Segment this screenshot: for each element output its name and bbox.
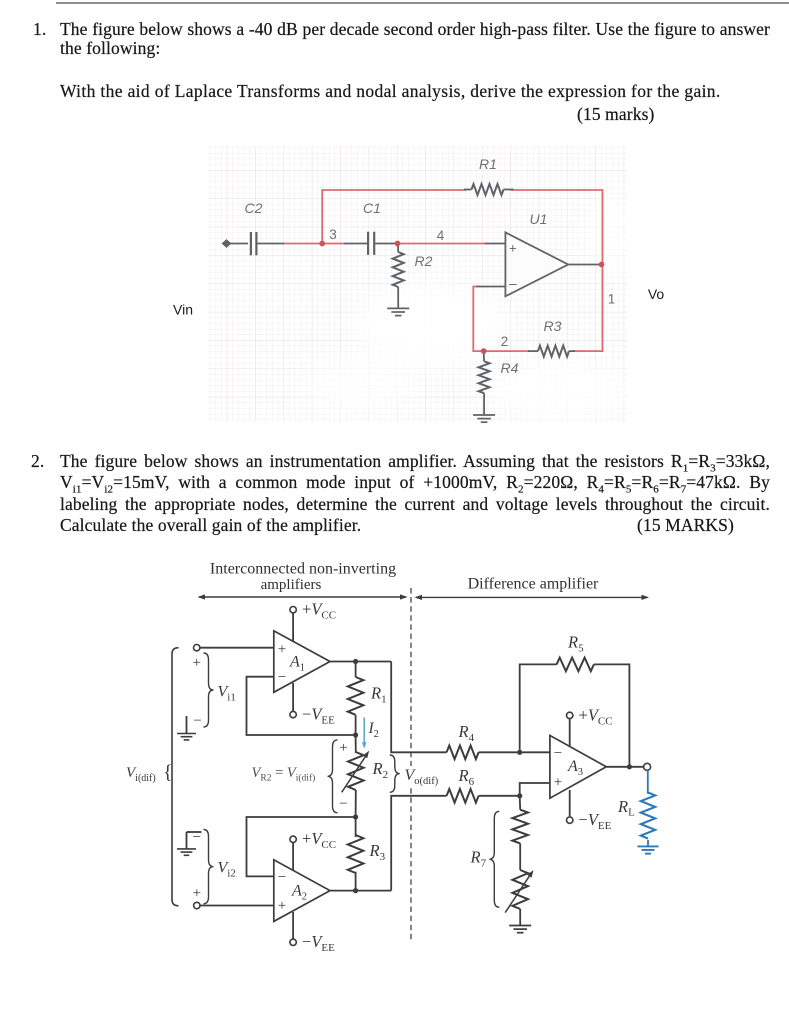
resistor R3 (355, 817, 357, 837)
node A1 output (353, 659, 358, 664)
A3 output wire (606, 766, 644, 768)
ground of RL (blue) (638, 845, 659, 847)
svg-text:R1: R1 (370, 684, 387, 706)
op-amp A1 supply stubs (292, 613, 294, 650)
op-amp A3 Vee terminal (567, 817, 573, 823)
svg-text:C1: C1 (363, 200, 381, 216)
svg-text:−: − (193, 830, 201, 846)
op-amp A3 triangle (550, 735, 606, 798)
A2 input terminal circle (194, 902, 200, 908)
A2 output wire and corner up to R6 rail (330, 890, 391, 892)
svg-text:+: + (278, 898, 286, 914)
node A2 output (353, 888, 358, 893)
svg-text:R2: R2 (415, 253, 433, 269)
svg-text:R7: R7 (470, 848, 487, 870)
lower source ground flag (187, 831, 202, 833)
svg-text:−: − (278, 870, 286, 886)
svg-text:{: { (163, 762, 173, 784)
svg-text:−: − (339, 796, 347, 812)
svg-text:+: + (554, 775, 562, 791)
capacitor C1 (344, 243, 368, 245)
svg-text:RL: RL (617, 797, 635, 819)
svg-text:VR2 = Vi(dif): VR2 = Vi(dif) (252, 765, 316, 783)
span arrow left section (199, 596, 406, 598)
svg-text:+: + (192, 655, 200, 671)
load resistor RL (blue) (647, 770, 649, 793)
ground of R7 (509, 925, 531, 927)
ground of R4 (473, 414, 495, 416)
resistor R2 (variable) (355, 735, 357, 753)
brace VR2 (328, 740, 338, 813)
op-amp A3 supply stubs (569, 719, 571, 755)
A1 output wire to corner (330, 661, 391, 663)
node 4 junction dot (395, 241, 401, 247)
svg-text:Vi1: Vi1 (218, 684, 236, 704)
ground of R2 (387, 307, 409, 309)
svg-text:R2: R2 (372, 759, 389, 781)
svg-text:R4: R4 (458, 722, 475, 744)
A1 input terminal circle (194, 645, 200, 651)
svg-text:4: 4 (437, 228, 445, 243)
svg-text:2: 2 (501, 334, 509, 349)
brace Vi1 (204, 653, 214, 727)
wire corner down to R4 rail (391, 662, 446, 753)
svg-text:C2: C2 (245, 200, 263, 216)
dashed divider line (410, 588, 412, 942)
A1 noninverting input wire (200, 647, 274, 649)
op-amp A2 Vcc terminal (290, 836, 296, 842)
resistor R6 (447, 789, 479, 803)
wire inverting input feedback to node 2 (473, 287, 529, 352)
resistor R4 (483, 351, 485, 361)
svg-text:+VCC: +VCC (579, 706, 613, 728)
brace Vi2 (204, 830, 214, 904)
resistor R5 feedback (520, 664, 557, 752)
svg-text:Vo: Vo (648, 286, 665, 302)
svg-text:R6: R6 (458, 766, 475, 788)
op-amp A1 triangle (274, 631, 330, 693)
op-amp A2 Vee terminal (290, 939, 296, 945)
svg-text:R5: R5 (567, 633, 584, 655)
resistor R1 (464, 189, 472, 191)
capacitor C2 (250, 232, 252, 255)
svg-text:+VCC: +VCC (302, 600, 336, 622)
A1 inverting feedback wire (247, 677, 356, 735)
resistor R3 (528, 350, 538, 352)
svg-text:+: + (193, 886, 201, 902)
R2 adjustment arrow (342, 755, 367, 792)
svg-text:−: − (554, 746, 562, 762)
brace Vo(dif) (390, 755, 400, 792)
svg-text:3: 3 (329, 227, 337, 242)
svg-text:R3: R3 (544, 318, 562, 334)
op-amp A2 triangle (274, 860, 330, 922)
svg-text:R3: R3 (369, 841, 386, 863)
resistor R2 (397, 244, 399, 253)
output terminal circle (644, 763, 651, 770)
svg-text:−: − (278, 670, 286, 686)
svg-text:U1: U1 (530, 211, 548, 227)
svg-text:Vin: Vin (173, 302, 193, 318)
node 2 junction dot (481, 348, 487, 354)
wire R1 to output rail down to R3 right lead (511, 190, 603, 351)
span arrow right section (416, 596, 648, 598)
svg-text:+VCC: +VCC (302, 829, 336, 851)
op-amp A2 supply stubs (292, 843, 294, 881)
schematic grid background (208, 146, 628, 422)
resistor R1 (355, 662, 357, 678)
svg-text:–: – (509, 275, 517, 291)
svg-text:Vi(dif): Vi(dif) (126, 765, 156, 784)
node A3 noninverting input (517, 793, 522, 798)
wire C2 to node 3 (283, 243, 344, 245)
op-amp A1 Vee terminal (290, 711, 296, 717)
A2 noninverting input wire (200, 905, 274, 907)
output node 1 dot (599, 262, 605, 268)
node A3 output (627, 764, 632, 769)
svg-text:−VEE: −VEE (579, 810, 612, 832)
node R2-R3 (353, 814, 358, 819)
brace R7 (489, 811, 499, 907)
wire node up to A3 noninverting input (520, 783, 550, 796)
node A3 inverting input (517, 750, 522, 755)
op-amp A3 Vcc terminal (567, 712, 573, 718)
label Vo(dif) (401, 766, 446, 786)
svg-text:−VEE: −VEE (302, 932, 335, 954)
svg-text:Difference amplifier: Difference amplifier (468, 576, 599, 593)
A2 inverting feedback wire (247, 817, 356, 876)
op-amp A1 Vcc terminal (290, 607, 296, 613)
R7 adjustment arrow (505, 875, 530, 913)
svg-text:R4: R4 (501, 360, 519, 376)
svg-text:+: + (339, 740, 347, 756)
upper source ground (186, 716, 188, 734)
wire node 3 riser and top rail to R1 (322, 190, 466, 244)
svg-text:Vi2: Vi2 (218, 860, 236, 880)
svg-text:R1: R1 (479, 156, 497, 172)
svg-text:1: 1 (608, 292, 616, 307)
svg-text:+: + (278, 642, 286, 658)
input bracket Vi(dif) (172, 648, 179, 906)
node R1-R2 (353, 732, 358, 737)
current arrow I2 (363, 718, 365, 744)
op-amp U1 (476, 286, 506, 288)
svg-text:Interconnected non-inverting: Interconnected non-inverting (210, 561, 396, 578)
svg-text:−: − (193, 713, 201, 729)
resistor R7 (fixed + variable) (519, 796, 522, 810)
node 3 junction dot (319, 241, 325, 247)
svg-text:+: + (509, 241, 517, 256)
wire node 4 to op-amp noninverting input (398, 243, 488, 245)
svg-text:I2: I2 (368, 720, 379, 740)
Vin input arrow terminal (222, 239, 232, 248)
svg-text:−VEE: −VEE (302, 705, 335, 727)
resistor R4 (447, 746, 479, 760)
svg-text:amplifiers: amplifiers (261, 577, 322, 593)
